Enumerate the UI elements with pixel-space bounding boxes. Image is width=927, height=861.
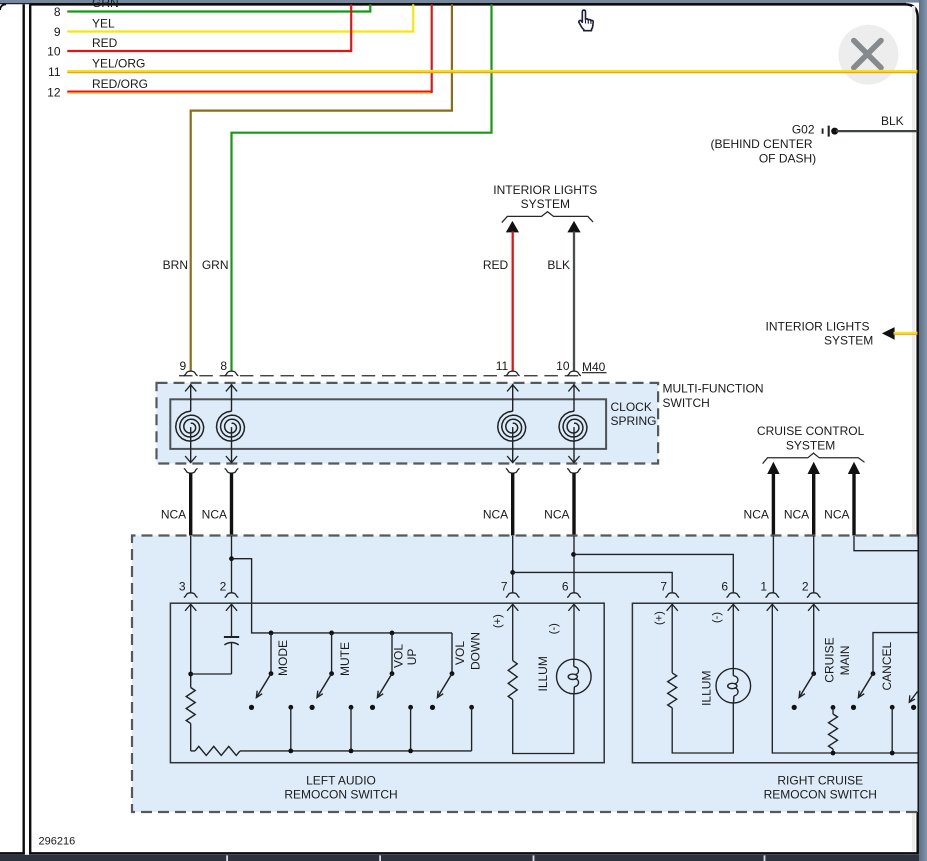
svg-text:8: 8	[220, 359, 227, 373]
svg-text:SYSTEM: SYSTEM	[521, 197, 570, 211]
svg-text:MODE: MODE	[276, 640, 290, 676]
connector M40 row (dashed)	[179, 375, 581, 377]
svg-text:7: 7	[501, 580, 508, 594]
svg-text:YEL: YEL	[92, 16, 115, 30]
svg-text:(+): (+)	[654, 611, 666, 625]
wire RED (clock spring pin 11 to interior lights)	[512, 231, 514, 371]
svg-text:M40: M40	[582, 360, 606, 374]
svg-text:REMOCON SWITCH: REMOCON SWITCH	[284, 788, 397, 802]
svg-text:10: 10	[556, 359, 570, 373]
connector M40 pin 11 terminal	[506, 371, 520, 376]
svg-text:2: 2	[220, 580, 227, 594]
clock spring coil (pin 11)	[498, 384, 526, 463]
wire RED pin 10	[67, 4, 351, 51]
pin 3 branch: wire + resistor R1	[190, 604, 192, 687]
cancel return wire	[890, 705, 895, 710]
clock spring coil (pin 10)	[559, 384, 587, 463]
capacitor C1 (pin 2)	[231, 604, 233, 636]
left connector pin numbers	[47, 5, 61, 100]
svg-text:6: 6	[721, 580, 728, 594]
wire YEL/ORG pin 11 (crosses page)	[67, 70, 917, 72]
right cruise remocon switch box (cut at right)	[632, 603, 917, 763]
cruise wires below dashed edge	[772, 536, 774, 593]
wire BLK to G02	[836, 130, 917, 132]
arrow (BLK to interior lights)	[567, 221, 580, 233]
svg-text:SPRING: SPRING	[611, 414, 657, 428]
wire BLK (clock spring pin 10 to interior lights)	[573, 231, 575, 371]
svg-text:ILLUM: ILLUM	[699, 671, 713, 706]
svg-text:GRN: GRN	[202, 258, 229, 272]
switch rail junctions	[269, 631, 274, 636]
arrow (cruise wire 3)	[848, 462, 860, 474]
svg-text:INTERIOR LIGHTS: INTERIOR LIGHTS	[765, 319, 869, 333]
svg-text:7: 7	[660, 580, 667, 594]
partial switch (cut at right edge)	[911, 705, 916, 710]
close button	[838, 25, 898, 85]
mouse cursor (hand pointer)	[579, 10, 593, 31]
svg-text:SWITCH: SWITCH	[663, 396, 710, 410]
wire color labels	[92, 0, 148, 91]
right box pin terminals	[665, 593, 679, 598]
junction + branch (pin11 wire to right box pin 7)	[510, 570, 515, 575]
clock spring box	[170, 399, 606, 449]
svg-text:(+): (+)	[492, 614, 504, 628]
connector M40 pin 9 terminal	[184, 371, 198, 376]
scrollbar track inside right border	[912, 6, 915, 851]
resistor R5 (cruise main)	[831, 705, 836, 710]
switch CANCEL	[873, 633, 918, 674]
switch return wires to rail	[288, 705, 293, 710]
multi-function switch box (dashed)	[157, 383, 659, 464]
pin entry arrows (left box)	[185, 604, 196, 611]
svg-text:NCA: NCA	[161, 508, 186, 522]
svg-text:9: 9	[180, 359, 187, 373]
wire GRN (to clock spring pin 8)	[232, 4, 492, 371]
junction + branch (pin10 wire to right box pin 6)	[571, 552, 576, 557]
svg-text:CRUISE: CRUISE	[823, 637, 837, 682]
svg-text:RIGHT CRUISE: RIGHT CRUISE	[777, 773, 863, 787]
svg-text:BLK: BLK	[881, 114, 904, 128]
right blue-gray strip	[919, 0, 927, 861]
svg-text:UP: UP	[405, 649, 419, 666]
svg-text:OF DASH): OF DASH)	[759, 151, 816, 165]
top toolbar strip	[0, 0, 927, 3]
wire (pin10 NCA to left box pin 6)	[573, 536, 575, 593]
svg-text:NCA: NCA	[744, 508, 769, 522]
wire (pin11 NCA to left box pin 7)	[512, 536, 514, 593]
svg-text:YEL/ORG: YEL/ORG	[92, 56, 145, 70]
svg-text:NCA: NCA	[483, 508, 508, 522]
svg-text:NCA: NCA	[824, 508, 849, 522]
brace (interior lights)	[502, 212, 593, 223]
svg-text:11: 11	[48, 65, 61, 79]
left box pin terminals	[184, 593, 198, 598]
wire RED/ORG pin 12	[67, 90, 431, 92]
arrow (cruise wire 1)	[767, 462, 779, 474]
clock spring coil (pin 9)	[176, 384, 204, 463]
svg-text:LEFT AUDIO: LEFT AUDIO	[306, 773, 376, 787]
svg-text:296216: 296216	[39, 836, 76, 848]
svg-text:CLOCK: CLOCK	[611, 400, 652, 414]
wire YEL pin 9	[67, 4, 413, 31]
wire GRN pin 8	[67, 4, 370, 11]
svg-text:1: 1	[760, 580, 767, 594]
wire YEL/ORG stub (right edge)	[894, 332, 918, 334]
svg-text:CANCEL: CANCEL	[880, 641, 894, 690]
connector M40 pin 10 terminal	[567, 371, 581, 376]
svg-text:6: 6	[562, 580, 569, 594]
junction + branch (pin8 wire to switch rail)	[229, 556, 234, 561]
male terminal + NCA wire (pin 10 out)	[567, 469, 581, 474]
lamp ILLUM (right box)	[732, 604, 734, 668]
switch MUTE	[310, 671, 335, 710]
svg-text:RED/ORG: RED/ORG	[92, 77, 148, 91]
svg-text:RED: RED	[483, 258, 509, 272]
male terminal + NCA wire (pin 9 out)	[184, 469, 198, 474]
svg-text:(BEHIND CENTER: (BEHIND CENTER	[710, 137, 812, 151]
clock spring coil (pin 8)	[217, 384, 245, 463]
svg-text:DOWN: DOWN	[469, 632, 483, 670]
resistor R3 (illum +)	[512, 604, 514, 660]
male terminal + NCA wire (pin 8 out)	[225, 469, 239, 474]
left audio remocon switch box	[170, 603, 604, 763]
svg-text:VOL: VOL	[453, 641, 467, 665]
resistor R2 (horizontal)	[195, 746, 240, 755]
connector M40 pin 8 terminal	[225, 371, 239, 376]
pin entry arrows (right box)	[667, 604, 678, 611]
resistor R4 (illum +, right box)	[671, 604, 673, 673]
wire BRN (to clock spring pin 9)	[191, 4, 452, 371]
svg-text:NCA: NCA	[544, 508, 569, 522]
svg-text:BLK: BLK	[547, 258, 570, 272]
ground G02 (behind center of dash)	[710, 123, 838, 166]
arrow (interior lights right)	[882, 327, 895, 340]
pin numbers M40	[180, 359, 570, 373]
svg-text:G02: G02	[792, 123, 815, 137]
svg-text:(-): (-)	[711, 612, 723, 623]
svg-text:BRN: BRN	[163, 258, 188, 272]
switch VOL UP	[370, 671, 395, 710]
svg-text:VOL: VOL	[392, 644, 406, 668]
svg-text:11: 11	[496, 359, 509, 373]
svg-text:2: 2	[802, 580, 809, 594]
svg-text:NCA: NCA	[784, 508, 809, 522]
labels NCA (clock spring outputs)	[161, 508, 570, 522]
pin numbers (switch boxes)	[179, 580, 809, 594]
svg-text:MUTE: MUTE	[338, 642, 352, 676]
labels NCA (cruise)	[744, 508, 850, 522]
svg-text:3: 3	[179, 580, 186, 594]
main page border	[29, 4, 31, 853]
lamp ILLUM (left box)	[573, 604, 575, 659]
wire (pin9 NCA to left box pin 3)	[190, 536, 192, 593]
pin 1 wire + bottom rail	[772, 604, 917, 753]
svg-text:MAIN: MAIN	[838, 645, 852, 675]
svg-text:ILLUM: ILLUM	[536, 656, 550, 691]
switch VOL DOWN	[430, 671, 455, 710]
brace (cruise control)	[763, 453, 865, 464]
svg-text:RED: RED	[92, 36, 118, 50]
svg-text:SYSTEM: SYSTEM	[824, 334, 873, 348]
svg-text:CRUISE CONTROL: CRUISE CONTROL	[757, 424, 865, 438]
male terminal + NCA wire (pin 11 out)	[506, 469, 520, 474]
svg-text:INTERIOR LIGHTS: INTERIOR LIGHTS	[493, 183, 597, 197]
svg-text:(-): (-)	[548, 623, 560, 634]
bottom dark tab bar	[0, 855, 927, 861]
switch MODE	[249, 671, 274, 710]
svg-text:12: 12	[47, 85, 61, 99]
wire (pin8 NCA to left box pin 2)	[231, 536, 233, 593]
svg-text:NCA: NCA	[202, 508, 227, 522]
svg-text:9: 9	[54, 25, 61, 39]
switch CRUISE MAIN	[813, 604, 815, 673]
arrow (cruise wire 2)	[808, 462, 820, 474]
svg-text:MULTI-FUNCTION: MULTI-FUNCTION	[663, 381, 764, 395]
switch stubs	[270, 633, 272, 674]
remocon switches box (dashed, cut at right)	[132, 536, 918, 813]
arrow (RED to interior lights)	[506, 221, 519, 233]
svg-text:GRN: GRN	[92, 0, 119, 10]
svg-text:8: 8	[54, 5, 61, 19]
left adjacent page (cut off): right border	[23, 4, 25, 853]
svg-text:REMOCON SWITCH: REMOCON SWITCH	[764, 788, 877, 802]
svg-text:10: 10	[47, 44, 61, 58]
svg-text:SYSTEM: SYSTEM	[786, 438, 835, 452]
